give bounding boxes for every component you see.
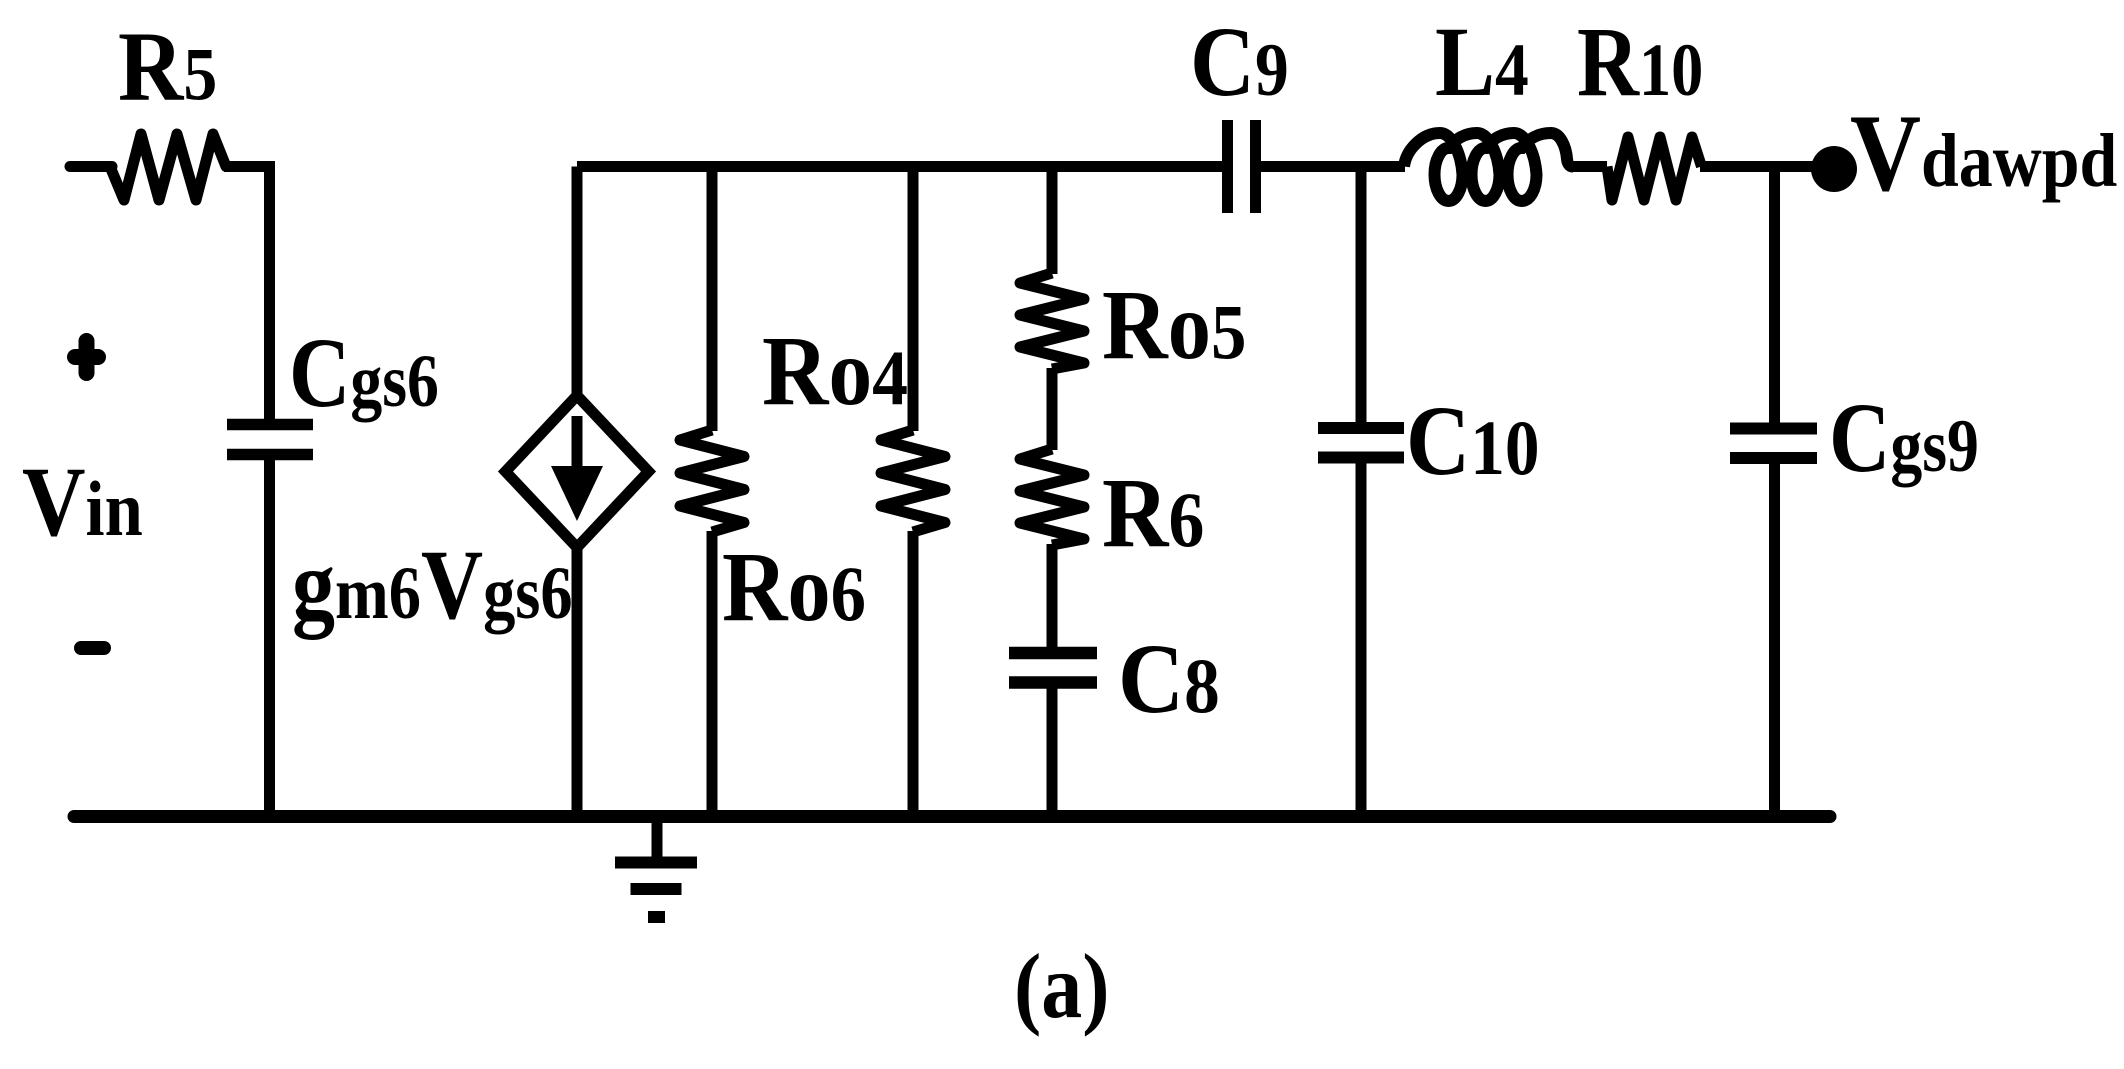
resistor R5 <box>110 134 226 200</box>
wire R10 to output node <box>1700 161 1830 172</box>
capacitor C10 <box>1318 428 1404 458</box>
wire C10 branch top <box>1356 167 1367 424</box>
capacitor C9 (series, vertical plates) <box>1228 120 1256 213</box>
ground rail (bottom bus) <box>74 810 1830 823</box>
svg-text:(a): (a) <box>1014 935 1109 1037</box>
capacitor Cgs9 <box>1730 429 1817 459</box>
wire Ro6 top <box>707 167 718 432</box>
wire Ro5 to R6 <box>1047 368 1058 450</box>
wire top bus from current source to C9 <box>577 161 1223 172</box>
node Vdawpd (output dot) <box>1811 146 1857 192</box>
label - (Vin polarity minus) <box>81 641 104 655</box>
current source arrow <box>572 416 583 467</box>
wire from R5 to input corner, down to Cgs6 <box>224 167 270 420</box>
wire Cgs9 bottom to rail <box>1769 462 1780 816</box>
wire input lead <box>70 161 112 172</box>
ground <box>615 817 697 923</box>
resistor Ro5 <box>1020 273 1084 369</box>
inductor L4 <box>1404 133 1573 201</box>
resistor R10 <box>1607 137 1702 200</box>
resistor Ro4 <box>881 430 945 532</box>
wire Cgs6 bottom to ground rail <box>264 459 275 816</box>
wire inductor to R10 <box>1570 161 1607 172</box>
wire C9 to inductor with C10 junction <box>1261 161 1405 172</box>
wire Ro4 bottom <box>908 531 919 816</box>
label + (Vin polarity plus) <box>75 341 98 373</box>
wire Ro5 branch top <box>1047 167 1058 275</box>
resistor R6 <box>1020 449 1084 545</box>
wire current source bottom to rail <box>572 545 583 816</box>
wire Ro6 bottom <box>707 531 718 816</box>
capacitor C8 <box>1009 653 1097 683</box>
wire current source top <box>572 167 583 398</box>
wire C8 bottom to rail <box>1047 687 1058 816</box>
wire Ro4 top <box>908 167 919 432</box>
wire R6 to C8 <box>1047 544 1058 648</box>
wire C10 bottom to rail <box>1356 462 1367 816</box>
wire Cgs9 branch top <box>1769 167 1780 424</box>
current source U1 gm6Vgs6 diamond <box>506 396 649 548</box>
resistor Ro6 <box>680 430 744 532</box>
capacitor Cgs6 <box>227 425 313 455</box>
